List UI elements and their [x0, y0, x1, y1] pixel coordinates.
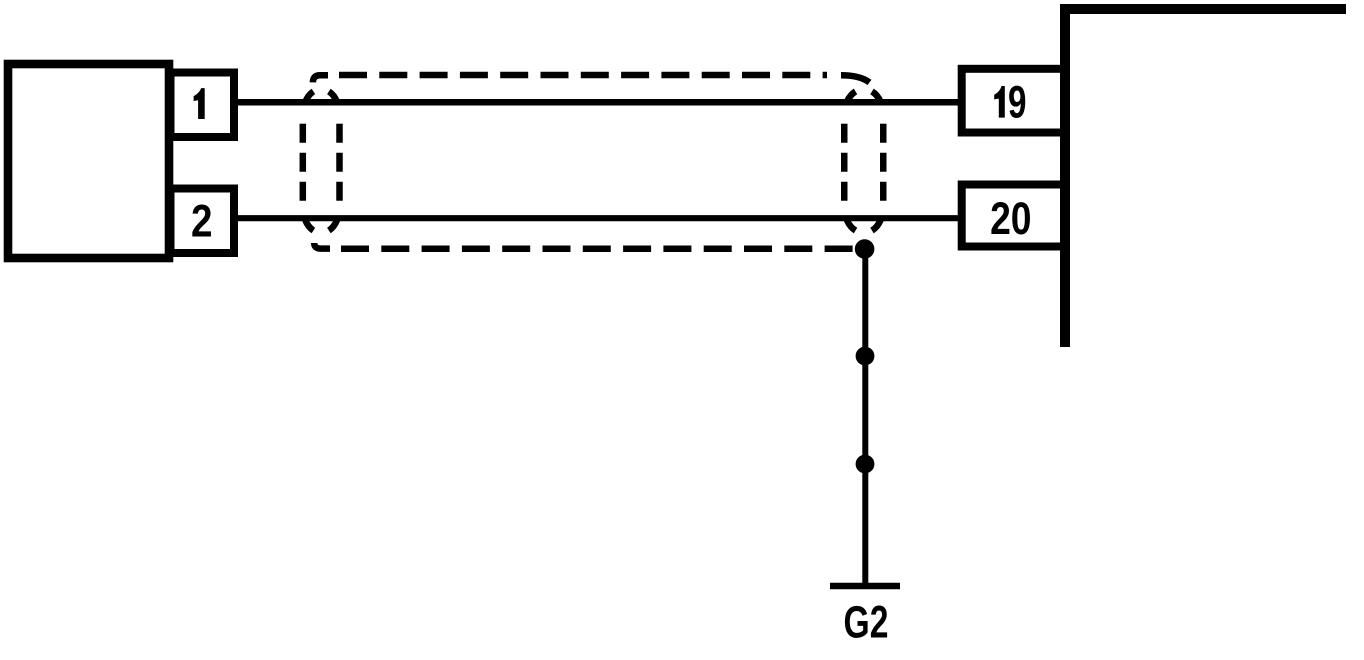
svg-text:G2: G2 [844, 598, 889, 648]
svg-text:9: 9 [1008, 78, 1026, 128]
svg-text:2: 2 [191, 195, 213, 246]
svg-text:20: 20 [990, 193, 1031, 244]
